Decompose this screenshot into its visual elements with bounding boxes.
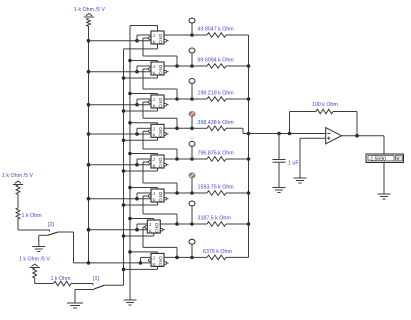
wire clock chain row 4 to row 5 Q — [143, 131, 177, 159]
JK flip-flop U3 — [149, 95, 169, 109]
resistor R7 3187.5 k Ohm — [192, 216, 249, 227]
power supply V2 +5V terminal — [13, 181, 23, 185]
wire preset rail row 7 — [128, 217, 154, 221]
wire K input row 7 from bus — [87, 228, 148, 232]
wire preset rail row 6 — [128, 186, 157, 190]
svg-text:Q: Q — [159, 262, 163, 268]
svg-text:Q: Q — [159, 197, 163, 203]
wire K input row 5 from bus — [87, 163, 151, 167]
JK flip-flop U7 — [145, 220, 165, 234]
wire K input row 8 from switch S2 and bus — [74, 261, 152, 265]
wire R14 to switch S1 — [71, 284, 93, 286]
ground for S2 — [32, 247, 45, 252]
svg-text:3187.5 k Ohm: 3187.5 k Ohm — [198, 216, 232, 222]
probe indicator P8 — [189, 239, 195, 257]
op-amp U9 — [326, 128, 342, 144]
wire Q output row 7 — [160, 222, 194, 226]
wire clock rail row 2 — [122, 75, 158, 80]
resistor R9 1k pull-up — [87, 19, 91, 27]
svg-text:Q: Q — [159, 70, 163, 76]
svg-text:Q: Q — [159, 256, 163, 262]
svg-text:6375 k Ohm: 6375 k Ohm — [203, 249, 232, 255]
wire J tie row 6 — [137, 193, 151, 199]
wire to resistor R12 — [17, 195, 19, 209]
wire clock rail row 8 — [122, 266, 158, 271]
wire clock rail row 7 — [122, 233, 154, 238]
ground for preset bus — [124, 300, 137, 305]
wire S2 pole to row 8 K line — [58, 232, 74, 263]
JK flip-flop U5 — [149, 155, 169, 169]
capacitor C1 1 uF — [273, 134, 300, 188]
svg-text:Q: Q — [159, 33, 163, 39]
resistor R10 100 k Ohm feedback — [290, 102, 358, 136]
wire preset rail row 1 — [130, 26, 158, 32]
probe indicator P5 — [189, 141, 195, 159]
resistor R6 1593.75 k Ohm — [192, 185, 249, 196]
wire Q output row 2 — [164, 64, 194, 68]
wire Q output row 5 — [164, 157, 194, 161]
svg-text:1 k Ohm: 1 k Ohm — [51, 276, 72, 282]
wire clock rail row 4 — [122, 137, 158, 142]
wire K input row 3 from bus — [87, 103, 151, 107]
wire voltmeter to ground — [383, 162, 385, 194]
resistor R14 1 k Ohm — [51, 276, 72, 286]
probe indicator P7 — [189, 201, 195, 224]
wire K input row 4 from bus — [87, 132, 151, 136]
ground for S1 — [67, 303, 83, 308]
ground for C1 — [273, 188, 286, 193]
resistor R4 398.438 k Ohm — [192, 120, 249, 134]
wire J tie row 3 — [137, 99, 151, 105]
switch S2 [2] — [39, 222, 58, 247]
wire J tie row 4 — [137, 128, 151, 134]
wire Q output row 6 — [164, 191, 194, 195]
svg-text:Q: Q — [159, 97, 163, 103]
wire R12 to switch S2 — [18, 219, 50, 232]
JK flip-flop U6 — [149, 189, 169, 203]
ground for voltmeter — [378, 194, 391, 199]
wire clock chain row 2 to row 3 Q — [143, 69, 177, 99]
wire clock rail row 6 — [122, 202, 158, 207]
power supply V1 +5V terminal — [84, 13, 94, 17]
wire preset rail row 5 — [128, 152, 157, 156]
resistor R11 1k — [16, 185, 20, 195]
svg-text:Q: Q — [155, 222, 159, 228]
svg-text:398.438 k Ohm: 398.438 k Ohm — [198, 120, 235, 126]
svg-text:Q: Q — [159, 157, 163, 163]
wire clock rail row 1 — [124, 44, 158, 49]
svg-text:1593.75 k Ohm: 1593.75 k Ohm — [198, 185, 235, 191]
voltmeter M1 — [366, 154, 404, 163]
svg-text:Q: Q — [155, 228, 159, 234]
probe indicator P3 — [189, 79, 195, 100]
switch S1 [1] — [75, 276, 104, 303]
svg-text:100 k Ohm: 100 k Ohm — [312, 102, 338, 108]
wire J tie row 2 — [137, 66, 151, 72]
wire clock chain row 6 to row 7 Q — [143, 196, 177, 224]
svg-text:1 k Ohm /5 V: 1 k Ohm /5 V — [74, 7, 105, 13]
wire R13 to R14 — [35, 278, 54, 284]
resistor R3 199.219 k Ohm — [192, 91, 249, 102]
resistor R2 99.6094 k Ohm — [192, 58, 249, 69]
svg-text:[2]: [2] — [48, 222, 54, 228]
svg-text:[1]: [1] — [93, 276, 99, 282]
wire clock bus from switch S1 — [123, 49, 125, 285]
wire J tie row 5 — [137, 159, 151, 165]
probe indicator P1 — [189, 18, 195, 35]
svg-text:49.8047 k Ohm: 49.8047 k Ohm — [198, 27, 235, 33]
wire K input row 1 from bus — [87, 39, 151, 43]
svg-text:199.219 k Ohm: 199.219 k Ohm — [198, 91, 235, 97]
wire summing node to op-amp inverting input — [249, 132, 326, 136]
wire non-inverting input to ground — [300, 138, 326, 178]
svg-text:Q: Q — [159, 133, 163, 139]
JK flip-flop U4 — [149, 124, 169, 138]
svg-text:Q: Q — [159, 39, 163, 45]
wire K input row 2 from bus — [87, 70, 151, 74]
svg-text:1 k Ohm /5 V: 1 k Ohm /5 V — [2, 173, 33, 179]
JK flip-flop U2 — [149, 62, 169, 76]
svg-text:Q: Q — [159, 191, 163, 197]
wire preset rail row 8 — [128, 250, 157, 254]
resistor R13 1k — [33, 268, 37, 278]
wire preset rail row 4 — [128, 121, 157, 125]
wire K input row 6 from bus — [87, 197, 151, 201]
ground for op-amp + input — [294, 178, 307, 183]
probe indicator P2 — [189, 48, 195, 66]
label 1 k Ohm /5 V for J/K pull-up — [74, 7, 105, 13]
wire Q output row 8 — [164, 256, 194, 260]
resistor R5 796.875 k Ohm — [192, 151, 249, 162]
svg-text:1 uF: 1 uF — [288, 161, 299, 167]
wire S1 pole to clock bus — [104, 284, 124, 286]
wire clock rail row 5 — [122, 168, 158, 173]
svg-text:Q: Q — [159, 127, 163, 133]
wire Q output row 1 — [164, 33, 194, 37]
svg-text:1 k Ohm: 1 k Ohm — [22, 213, 43, 219]
wire preset rail row 2 — [128, 59, 157, 63]
resistor R12 1 k Ohm — [16, 208, 42, 219]
svg-text:Q: Q — [159, 163, 163, 169]
label 1 k Ohm /5 V for S2 branch — [2, 173, 33, 179]
svg-text:Q: Q — [159, 103, 163, 109]
JK flip-flop U1 — [149, 31, 169, 45]
svg-text:796.875 k Ohm: 796.875 k Ohm — [198, 151, 235, 157]
wire preset bus — [129, 26, 131, 301]
resistor R8 6375 k Ohm — [192, 249, 249, 260]
svg-text:1 k Ohm /5 V: 1 k Ohm /5 V — [19, 257, 50, 263]
power supply V3 +5V terminal — [30, 264, 40, 268]
wire clock chain row 7 to row 8 Q — [143, 227, 177, 257]
label 1 k Ohm /5 V for S1 branch — [19, 257, 50, 263]
probe indicator P6 (lit red) — [189, 173, 195, 193]
wire J tie row 7 — [137, 224, 147, 230]
svg-text:-1.5690: -1.5690 — [369, 156, 386, 162]
wire clock chain row 1 to row 2 Q — [143, 38, 177, 66]
wire J tie row 8 — [141, 257, 152, 263]
wire Q output row 4 — [164, 127, 194, 131]
wire J tie row 1 — [137, 35, 151, 41]
JK flip-flop U8 — [149, 253, 169, 267]
probe indicator P4 (lit red) — [189, 111, 195, 128]
svg-text:99.6094 k Ohm: 99.6094 k Ohm — [198, 58, 235, 64]
resistor R1 49.8047 k Ohm — [192, 27, 249, 38]
wire summing bus — [247, 35, 251, 257]
wire clock chain row 5 to row 6 Q — [143, 162, 177, 193]
wire clock rail row 3 — [122, 108, 158, 113]
wire clock chain row 3 to row 4 Q — [143, 102, 177, 128]
svg-text:Q: Q — [159, 64, 163, 70]
wire left J/K bus — [88, 26, 90, 263]
wire preset rail row 3 — [128, 92, 157, 96]
wire Q output row 3 — [164, 97, 194, 101]
wire op-amp output to voltmeter — [342, 134, 385, 154]
